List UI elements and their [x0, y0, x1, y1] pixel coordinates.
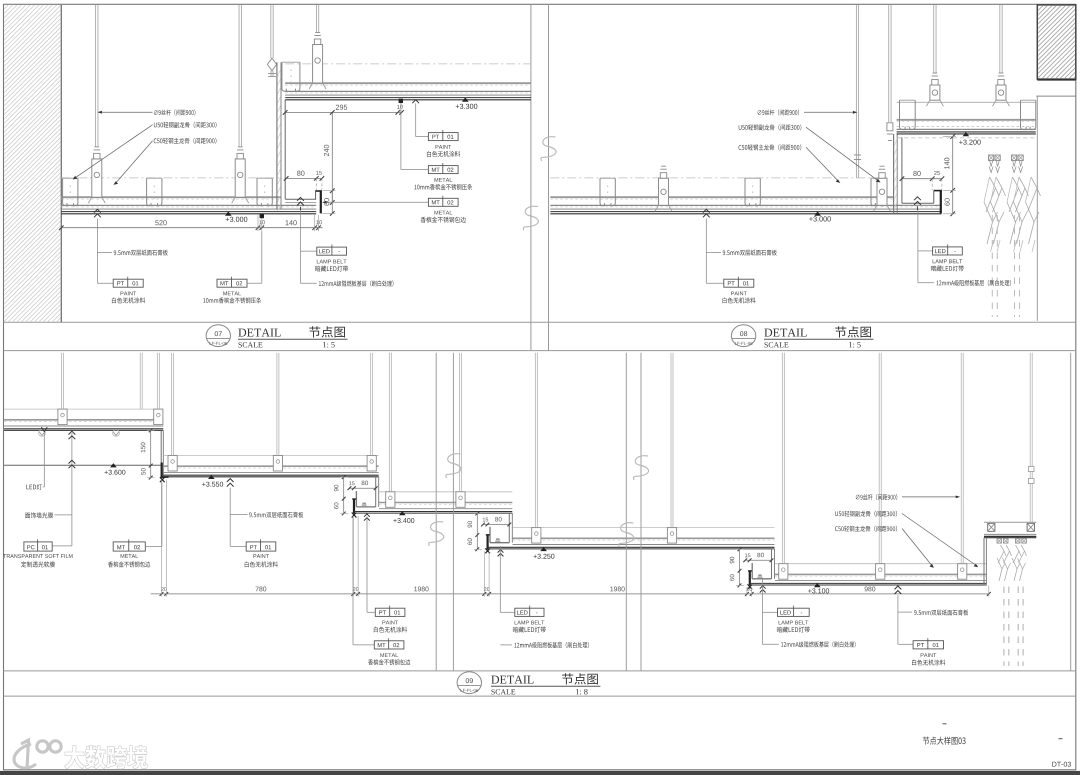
- finish tag PT-01 paint lower detail 07: [113, 279, 143, 287]
- leader 12mm backing board label detail 08: [918, 282, 934, 284]
- dimension 60 vertical detail 08: [952, 190, 954, 214]
- dimension 150/50 step1: [150, 430, 152, 477]
- curtain track T2 with gliders: [1012, 155, 1017, 161]
- level marker +3.600: [110, 463, 117, 467]
- leader gypsum board label detail 07: [94, 209, 101, 212]
- level marker +3.400: [399, 511, 406, 515]
- leader U50 furring channel label 09: [902, 514, 976, 566]
- step fascia boards detail 07: [276, 62, 278, 209]
- hanger rod R1: [95, 5, 97, 147]
- finish tag PT-01 paint 09 left: [230, 545, 246, 547]
- lamp tag LED lamp belt 09 mid: [499, 546, 501, 612]
- ceiling band +3.400 detail 09: [379, 491, 512, 493]
- finish tag PT-01 paint 09 right: [898, 643, 913, 645]
- break symbol on detail 08 edge: [541, 137, 556, 161]
- level marker +3.000 detail 07: [225, 211, 232, 215]
- step1 fascia to +3.550: [160, 430, 162, 478]
- leader hanger rod label: [101, 111, 152, 113]
- hanger rod R5: [855, 5, 857, 178]
- main runner C2: [147, 178, 162, 206]
- title strip line bottom detail: [4, 670, 1076, 672]
- finish tag MT-02 metal edge 09 mid: [353, 644, 374, 646]
- main runner C6: [745, 178, 760, 206]
- ceiling band +3.200 detail 08: [897, 101, 1036, 103]
- main runner C1: [63, 178, 78, 206]
- hanger strap H1: [92, 159, 102, 197]
- ceiling band +3.300 detail 07: [285, 63, 531, 65]
- curtain dashed drop lines detail 08: [991, 215, 993, 317]
- title block detail 09: [457, 672, 481, 694]
- main runner C7: [871, 178, 886, 206]
- leader gypsum board label 09 mid: [227, 479, 234, 482]
- leader gypsum board label 09 right: [895, 586, 902, 589]
- recess bottom lip detail 08: [902, 202, 934, 204]
- ceiling band +3.250 detail 09: [513, 527, 775, 529]
- ceiling band +3.000 detail 08: [550, 177, 890, 179]
- translucent soft film line PC-01: [4, 464, 161, 466]
- step fascia boards detail 08: [893, 134, 895, 214]
- hanger strap H7: [996, 85, 1006, 100]
- hanger strap H5: [877, 178, 887, 205]
- curtain fabric folds detail 08: [984, 177, 1041, 252]
- main runner C3: [257, 178, 272, 206]
- frame divider detail 07 right edge: [530, 4, 532, 350]
- leader hanger rod label detail 08: [804, 111, 853, 113]
- curtain track T1 with gliders: [989, 155, 1001, 173]
- finish tag MT-02 metal edge 09 left: [113, 542, 145, 551]
- concrete beam section top right: [1037, 5, 1076, 79]
- luminous ceiling structural band detail 09: [4, 408, 163, 410]
- sheet number DT-03: [1052, 762, 1071, 767]
- step4 cove +3.250 to +3.100: [771, 549, 773, 579]
- dimension 520/10/140/10 row detail 07: [61, 227, 322, 229]
- lamp tag LED lamp belt 09 right: [761, 579, 763, 613]
- ceiling band +3.000 detail 07: [61, 177, 281, 179]
- finish tag PT-01 paint 09 mid: [367, 611, 375, 613]
- main runner C9: [1021, 100, 1036, 129]
- dimension 295/10 upper detail 07: [285, 111, 401, 113]
- finish tag MT-02 metal edge trim detail 07: [428, 198, 458, 206]
- curtain dashed drop lines detail 09: [1003, 587, 1005, 666]
- title strip line top details: [4, 321, 1076, 323]
- wall W1 hatched masonry wall: [0, 5, 378, 322]
- finish tag PC-01 transparent soft film: [52, 545, 72, 547]
- leader C50 carrying channel label detail 08: [806, 147, 838, 180]
- lamp tag LED lamp belt detail 08: [917, 210, 919, 283]
- leader 12mm backing board label 09 right: [761, 612, 763, 644]
- watermark text da shu kua jing: [65, 745, 147, 768]
- hanger rod R3: [315, 5, 317, 33]
- dimension 240 vertical: [331, 112, 333, 202]
- leader soft film face label 09 left: [25, 512, 53, 518]
- watermark logo 10x100: [14, 740, 61, 769]
- step2 cove +3.550 to +3.400: [375, 477, 377, 507]
- lamp tag LED lamp belt detail 07: [300, 210, 302, 283]
- leader gypsum board label detail 08: [703, 209, 710, 212]
- LED fixture symbol B: [113, 432, 119, 436]
- break symbol on detail 07 edge: [523, 206, 538, 230]
- LED strip symbol detail 08: [914, 197, 921, 200]
- level marker +3.200: [963, 132, 970, 136]
- dimension 60 vertical at J-trim: [331, 191, 333, 214]
- hanger rod R7: [933, 5, 935, 73]
- hanger strap H4: [659, 178, 669, 205]
- hanger strap H3: [313, 45, 323, 84]
- step3 cove +3.400 to +3.250: [508, 513, 510, 543]
- tiny revision dash B: [1059, 738, 1063, 740]
- tiny revision dash A: [943, 723, 947, 725]
- curtain fabric folds detail 09: [997, 545, 1027, 581]
- dimension 80/15 recess: [286, 177, 322, 179]
- main runner C8: [900, 100, 916, 129]
- leader LED lamp label 09 left: [26, 484, 42, 490]
- fascia at +3.100 right end: [983, 538, 985, 586]
- finish tag PT-01 paint upper detail 07: [412, 100, 419, 103]
- dimension 140 vertical detail 08: [952, 137, 954, 191]
- main runner C4 at step: [282, 62, 300, 91]
- curtain tracks detail 09: [997, 539, 1002, 544]
- LED fixture symbol A: [39, 432, 45, 436]
- hanger straps and rods detail 09: [58, 409, 67, 425]
- hanger rod R8: [999, 5, 1001, 73]
- hanger rod R2: [238, 5, 240, 147]
- step1 metal edge black L: [161, 463, 163, 478]
- dimension 80/25 detail 08: [902, 178, 942, 180]
- hanger strap H6: [930, 85, 940, 100]
- window mullion line: [1036, 96, 1038, 321]
- hanger rod R6 at fascia: [888, 5, 890, 122]
- sheet name text: [923, 737, 966, 745]
- pocket hanger rod: [1029, 353, 1031, 523]
- leader hanger rod label 09: [902, 496, 956, 498]
- recess bottom lip with LED shelf: [285, 198, 316, 200]
- level marker +3.300: [462, 97, 469, 101]
- title block detail 07: [206, 325, 230, 347]
- hanger strap H2: [235, 159, 245, 197]
- metal edge profile MT-02 J-trim detail 07: [320, 191, 322, 214]
- level marker +3.000 detail 08: [814, 211, 821, 215]
- bottom dimension row detail 09: [151, 593, 989, 595]
- level marker +3.550: [208, 475, 215, 479]
- leader 12mm backing board label 09 mid: [500, 644, 512, 646]
- leader U50 furring channel label detail 08: [806, 127, 878, 180]
- level marker +3.250: [540, 547, 547, 551]
- reveal metal square marker upper: [399, 99, 403, 103]
- metal edge J-trim detail 08: [940, 190, 942, 213]
- ceiling band +3.100 detail 09: [775, 563, 987, 565]
- recess interior wall detail 08: [901, 137, 903, 203]
- hanger rod R4 with turnbuckle: [270, 5, 272, 58]
- recess side wall line: [284, 100, 286, 199]
- frame divider detail 08 left edge: [548, 4, 550, 350]
- finish tag MT-02 metal strip upper detail 07: [428, 166, 458, 174]
- leader C50 carrying channel label: [116, 141, 152, 183]
- finish tag MT-02 metal strip lower detail 07: [217, 279, 247, 287]
- title block detail 08: [731, 325, 755, 347]
- ceiling band +3.550 detail 09: [163, 455, 378, 457]
- break lines detail 09 left pair: [435, 353, 437, 671]
- break lines detail 09 right pair: [625, 353, 627, 671]
- bottom dark bar: [0, 771, 1080, 775]
- pocket end blocking squares: [988, 523, 995, 531]
- level marker +3.100: [814, 583, 821, 587]
- main runner C5: [600, 178, 615, 206]
- LED strip symbol detail 07: [297, 197, 304, 200]
- dashed furring line under +3.200 board: [897, 137, 1036, 139]
- reveal metal square marker lower: [260, 214, 264, 218]
- leader 12mm backing board label detail 07: [301, 282, 317, 284]
- window head line: [1036, 95, 1076, 97]
- leader U50 furring channel label: [76, 125, 153, 178]
- leader C50 carrying channel label 09: [902, 529, 932, 566]
- finish tag PT-01 paint detail 08: [724, 279, 754, 287]
- detail 09 frame right edge: [1070, 353, 1072, 671]
- curtain pocket band right end detail 09: [984, 521, 1036, 523]
